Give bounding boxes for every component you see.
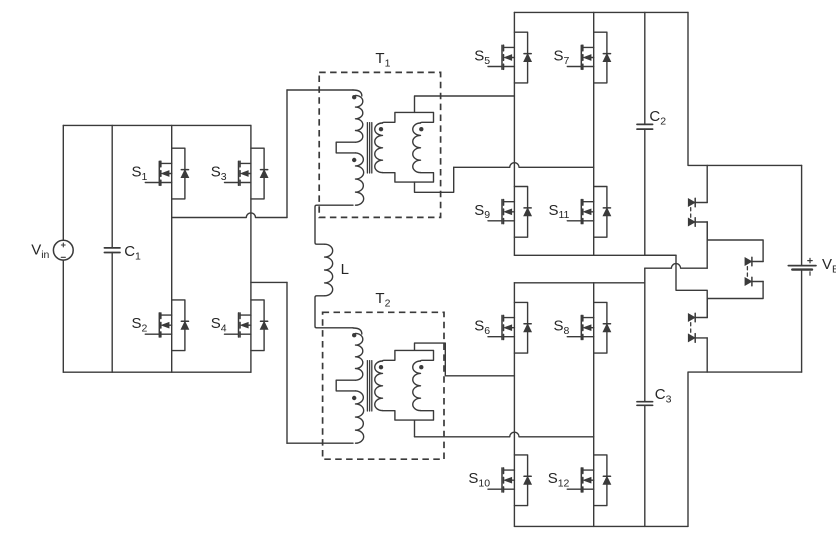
T1 primary dot lower [352, 158, 356, 162]
T2 primary tap jog [336, 380, 355, 391]
wire bottom rail left bridge [63, 371, 251, 373]
T2 primary dot upper [352, 333, 356, 337]
wire node M1 vertical [706, 222, 708, 268]
capacitor C1 [104, 125, 141, 372]
wire pair1 top stub [706, 165, 708, 202]
T2 secondary dot A [379, 365, 383, 369]
wire top rail left bridge [63, 124, 251, 126]
transistor S6 [474, 302, 531, 353]
T1 secondary bottom bus [383, 173, 434, 183]
T2 secondary bottom bus [383, 411, 434, 421]
wire T1 primary bottom lead [315, 205, 353, 244]
transistor S5 [474, 32, 531, 83]
transistor S8 [554, 302, 611, 353]
battery V_B [788, 165, 836, 372]
T2 secondary winding B [413, 361, 421, 411]
battery cell diode D2a [745, 258, 752, 266]
wire leg S1/S2 [171, 125, 173, 372]
T1 secondary winding B [413, 123, 421, 173]
dashed link pair 2 [746, 267, 748, 277]
wire node B vertical [286, 282, 288, 443]
T1 primary tap jog [336, 142, 355, 153]
transistor S4 [211, 300, 268, 351]
T1 primary winding lower [356, 153, 364, 205]
wire top rail upper-right bridge [514, 11, 688, 13]
T1 secondary dot B [419, 127, 423, 131]
wire pair1 bottom to pair2 top [707, 222, 763, 262]
transistor S1 [132, 148, 189, 199]
transistor S11 [548, 187, 610, 238]
wire node B to T2 primary bottom [287, 442, 353, 444]
capacitor C3 [637, 268, 672, 526]
wire top rail to battery [688, 12, 802, 165]
capacitor C2 [637, 12, 666, 255]
battery cell diode D3a [688, 314, 695, 322]
wire leg S6/S10 [513, 283, 515, 527]
dashed link pair 1 [690, 208, 692, 218]
inductor L [325, 244, 349, 296]
wire L bottom to T2 primary top [315, 296, 353, 328]
T2 secondary top bus [383, 350, 434, 361]
T2 core [366, 361, 368, 411]
wire bottom rail lower-right bridge [514, 525, 688, 527]
T1 core [366, 123, 368, 173]
wire node A to T1 primary [287, 89, 353, 91]
T1 secondary dot A [379, 127, 383, 131]
transistor S12 [548, 455, 611, 506]
wire bottom rail upper-right bridge [514, 254, 676, 256]
wire top rail lower-right bridge [514, 282, 644, 284]
battery cell diode D1b [688, 218, 695, 226]
battery cell diode D3b [688, 334, 695, 342]
T1 secondary winding A [375, 123, 383, 173]
wire leg S3/S4 [250, 125, 252, 372]
svg-text:L: L [341, 261, 349, 278]
T2 primary winding lower [356, 391, 364, 443]
wire pair3 bottom stub [706, 338, 708, 372]
transformer T1 dashed box [319, 72, 440, 217]
transformer T2 dashed box [323, 312, 444, 459]
wire leg S5/S9 [513, 12, 515, 255]
battery cell diode D2b [745, 278, 752, 286]
wire T1 secondary top exit [415, 96, 515, 112]
transistor S10 [468, 455, 531, 506]
wire battery bottom rail [688, 372, 802, 526]
voltage source V_in [31, 240, 73, 261]
wire T2 secondary top exit [415, 343, 515, 376]
battery cell diode D1a [688, 199, 695, 207]
wire V_in bottom [62, 260, 64, 372]
wire T1 secondary to S7/S11 midpoint (hop over S5/S9 leg) [454, 163, 594, 168]
dashed link pair 3 [690, 323, 692, 333]
T2 primary dot lower [352, 396, 356, 400]
transistor S3 [211, 148, 268, 199]
wire C3 top to node M1 (hop over staircase) [645, 264, 707, 269]
wire T2 secondary bottom exit [414, 421, 416, 437]
T2 primary winding upper [353, 328, 362, 334]
wire pair2 bottom to pair3 top [707, 282, 763, 318]
wire T2 secondary to S8/S12 midpoint (hop over S6/S10 leg) [415, 432, 594, 437]
wire node A vertical [286, 90, 288, 218]
T1 primary dot upper [352, 95, 356, 99]
transistor S7 [554, 32, 611, 83]
wire C2 bottom to node M2 staircase [645, 255, 707, 317]
T1 secondary top bus [383, 112, 434, 123]
T2 secondary winding A [375, 361, 383, 411]
T1 primary winding upper [353, 90, 362, 96]
wire V_in top to top rail [62, 125, 64, 240]
wire node A: S1/S2 midpoint to T1 primary top (hop over S3/S4 leg) [172, 213, 287, 218]
wire node B: S3/S4 midpoint [251, 281, 287, 283]
T2 secondary dot B [419, 365, 423, 369]
wire leg S7/S11 [593, 12, 595, 255]
transistor S9 [474, 187, 531, 238]
wire leg S8/S12 [593, 283, 595, 527]
transistor S2 [132, 300, 189, 351]
wire T1 secondary bottom exit [415, 167, 454, 192]
